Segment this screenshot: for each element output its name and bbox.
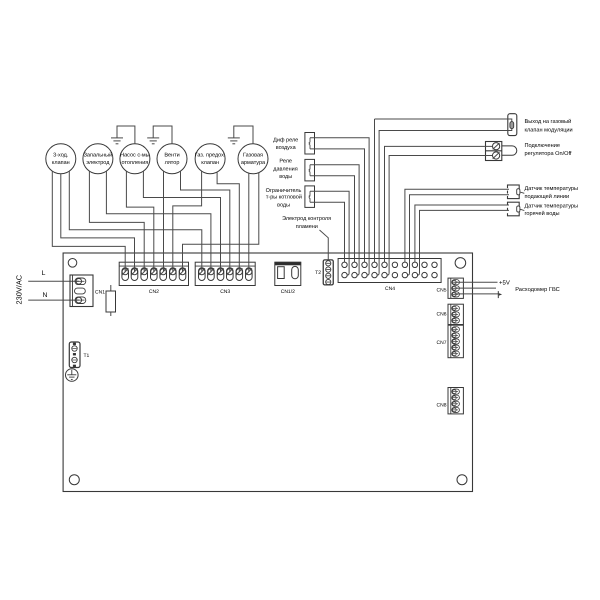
supply line temperature sensor B1 (508, 185, 520, 199)
CN4 pin top 10 (432, 262, 437, 267)
CN4 pin bottom 6 (392, 272, 397, 277)
CN3 terminal 3 (217, 268, 224, 281)
svg-text:Датчик температуры: Датчик температуры (525, 186, 579, 192)
svg-text:электрод: электрод (86, 160, 110, 166)
svg-text:пламени: пламени (296, 224, 318, 230)
CN4 pin bottom 7 (402, 272, 407, 277)
wire fan lead1 to CN2-5 (163, 171, 165, 271)
CN4 pin bottom 3 (362, 272, 367, 277)
PCB board outline (63, 253, 472, 492)
CN4 pin bottom 4 (372, 272, 377, 277)
wire hot water sensor bottom to CN4-8 bottom (420, 210, 510, 273)
ground for pump (117, 126, 135, 144)
CN4 pin top 8 (412, 262, 417, 267)
CN3 terminal 2 (208, 268, 215, 281)
wire ignition electrode lead2 to CN3-2 (106, 171, 210, 271)
svg-text:Насос с-мы: Насос с-мы (120, 153, 150, 159)
air differential relay S1 (305, 133, 315, 155)
wire air diff relay top to CN4-3 bottom (310, 138, 369, 275)
svg-text:CN7: CN7 (436, 340, 446, 346)
CN4 pin top 5 (382, 262, 387, 267)
CN4 pin top 1 (342, 262, 347, 267)
CN4 pin bottom 5 (382, 272, 387, 277)
connector CN5 (448, 278, 463, 298)
On/Off jumper loop (502, 146, 517, 155)
svg-text:арматура: арматура (241, 160, 266, 166)
CN2 terminal 5 (160, 268, 167, 281)
svg-text:Диф реле: Диф реле (273, 137, 298, 143)
CN4 pin top 3 (362, 262, 367, 267)
connector CN8 (448, 388, 463, 414)
CN4 pin top 9 (422, 262, 427, 267)
leader wire flame-control electrode to T2 (320, 230, 329, 261)
protective earth symbol (66, 369, 79, 382)
wire water pressure relay bottom to CN4-2 top (310, 176, 355, 262)
wire ignition electrode lead1 to CN2-3 (89, 171, 144, 271)
svg-text:Подключение: Подключение (525, 143, 560, 149)
svg-text:горячей воды: горячей воды (525, 210, 560, 217)
svg-text:230V/AC: 230V/AC (15, 274, 24, 304)
flow sensor pointer symbol (497, 291, 499, 298)
mounting hole top-right (455, 258, 466, 269)
svg-text:Реле: Реле (279, 159, 292, 165)
wire modulation valve top to CN4-4 top (375, 119, 512, 122)
wire 3-way valve lead3 to CN3-1 (69, 171, 202, 271)
wire temp limiter bottom to CN4-1 top (310, 202, 345, 262)
connector CN1 (70, 275, 93, 307)
wire gas safety valve lead1 to CN2-6 (173, 171, 202, 271)
CN2 terminal 2 (131, 268, 138, 281)
svg-text:регулятора On/Off: регулятора On/Off (525, 150, 572, 157)
svg-text:лятор: лятор (165, 160, 180, 166)
wire modulation valve bottom to CN4-4 bottom (379, 129, 512, 273)
svg-text:N: N (43, 292, 48, 299)
CN4 pin bottom 2 (352, 272, 357, 277)
CN4 pin top 2 (352, 262, 357, 267)
CN2 terminal 4 (151, 268, 158, 281)
fan M2 (157, 144, 187, 174)
svg-text:Расходомер ГВС: Расходомер ГВС (515, 287, 560, 293)
svg-text:Венти: Венти (164, 153, 179, 159)
svg-text:CN3: CN3 (220, 289, 230, 295)
connector CN1/2 (275, 262, 301, 285)
svg-text:Ограничитель: Ограничитель (266, 188, 302, 194)
gas safety valve Y1 (195, 144, 225, 174)
svg-text:т-ры котловой: т-ры котловой (266, 194, 302, 201)
svg-text:+5V: +5V (499, 279, 510, 286)
CN4 pin bottom 9 (422, 272, 427, 277)
CN4 pin top 7 (402, 262, 407, 267)
svg-text:CN1: CN1 (95, 289, 105, 295)
wire pump lead1 to CN2-4 (126, 171, 153, 271)
wire air diff relay bottom to CN4-3 top (310, 149, 365, 262)
svg-text:T1: T1 (84, 353, 90, 359)
svg-text:L: L (42, 270, 46, 277)
wire N to CN1 (28, 299, 79, 301)
svg-text:CN5: CN5 (436, 288, 446, 294)
wire hot water sensor top to CN4-8 top (415, 205, 509, 262)
wire temp limiter top to CN4-1 bottom (310, 191, 349, 275)
wire L to CN1 (28, 280, 79, 282)
gas modulation valve coil (508, 114, 517, 136)
CN4 pin top 4 (372, 262, 377, 267)
svg-text:Электрод контроля: Электрод контроля (282, 216, 331, 222)
CN3 terminal 1 (199, 268, 206, 281)
wire water pressure relay top to CN4-2 bottom (310, 165, 359, 275)
svg-text:Выход на газовый: Выход на газовый (525, 118, 572, 125)
CN2 terminal 6 (170, 268, 177, 281)
heating pump P1 (120, 144, 150, 174)
svg-text:Газовая: Газовая (243, 153, 263, 159)
connector T2 (flame electrode) (323, 260, 333, 285)
svg-text:давления: давления (273, 167, 297, 173)
ignition electrode E1 (83, 144, 113, 174)
mounting hole bottom-left (69, 475, 79, 485)
ground for fan (153, 126, 172, 144)
CN2 terminal 1 (122, 268, 129, 281)
3-way valve M1 (46, 144, 76, 174)
wire CN5-1 +5V (455, 281, 498, 283)
wire supply sensor bottom to CN4-7 bottom (410, 195, 510, 273)
svg-text:Датчик температуры: Датчик температуры (525, 204, 579, 210)
On/Off regulator terminals (486, 142, 502, 161)
wire gas armature lead2 to CN2-7 (183, 173, 259, 272)
wire On/Off regulator top to CN4-5 top (385, 146, 493, 262)
connector CN3 (195, 262, 255, 285)
CN3 terminal 5 (236, 268, 243, 281)
hot water temperature sensor B2 (508, 202, 520, 216)
wire pump lead2 to CN3-3 (143, 171, 220, 271)
boiler temperature limiter S3 (305, 186, 315, 208)
wire 3-way valve lead2 to CN2-2 (61, 174, 135, 272)
connector CN6 (448, 304, 463, 324)
gas armature Y2 (238, 144, 268, 174)
mounting hole top-left (68, 259, 77, 268)
wire CN5-2 signal (455, 287, 497, 289)
fuse F1 (110, 285, 112, 291)
svg-text:CN4: CN4 (385, 286, 395, 292)
transformer connector T1 (69, 342, 80, 368)
CN4 pin bottom 8 (412, 272, 417, 277)
svg-text:воды: воды (277, 203, 290, 209)
wire gas armature lead1 to CN3-6 (248, 173, 250, 271)
svg-text:отопления: отопления (122, 160, 149, 166)
CN2 terminal 3 (141, 268, 148, 281)
svg-text:клапан модуляции: клапан модуляции (525, 128, 573, 134)
svg-text:CN8: CN8 (436, 403, 446, 409)
svg-text:CN6: CN6 (436, 312, 446, 318)
wire gas safety valve lead2 to CN3-5 (217, 172, 239, 271)
svg-text:T2: T2 (315, 270, 321, 276)
wire supply sensor top to CN4-7 top (405, 189, 509, 262)
CN3 terminal 4 (227, 268, 234, 281)
CN2 terminal 7 (179, 268, 186, 281)
svg-text:воды: воды (279, 174, 292, 180)
CN3 terminal 6 (246, 268, 253, 281)
svg-text:клапан: клапан (201, 160, 219, 166)
wire 3-way valve lead1 to CN2-1 (52, 171, 125, 271)
svg-text:Газ. предох.: Газ. предох. (195, 153, 226, 159)
ground for gas armature (234, 126, 253, 144)
CN4 pin bottom 1 (342, 272, 347, 277)
svg-text:воздуха: воздуха (276, 145, 297, 151)
svg-text:CN1/2: CN1/2 (281, 289, 295, 295)
CN4 pin bottom 10 (432, 272, 437, 277)
svg-text:Запальный: Запальный (84, 152, 113, 159)
svg-text:клапан: клапан (52, 160, 70, 166)
svg-text:подающей линии: подающей линии (525, 193, 570, 200)
wire fan lead2 to CN3-4 (181, 171, 230, 271)
wire CN5-3 flow sensor (455, 293, 499, 295)
connector CN4 (338, 259, 441, 283)
connector CN2 (119, 262, 188, 285)
wire On/Off regulator bottom to CN4-5 bottom (389, 156, 492, 274)
water pressure relay S2 (305, 159, 315, 181)
mounting hole bottom-right (457, 475, 467, 485)
CN4 pin top 6 (392, 262, 397, 267)
svg-text:CN2: CN2 (149, 289, 159, 295)
svg-text:3-ход.: 3-ход. (53, 153, 69, 159)
connector CN7 (448, 325, 463, 358)
